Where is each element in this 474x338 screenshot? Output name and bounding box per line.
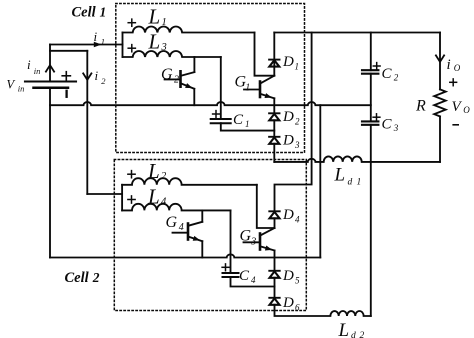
label D5 (282, 268, 300, 286)
label C4 (239, 268, 256, 285)
transistor G2 (165, 71, 195, 89)
svg-text:L: L (147, 184, 160, 208)
svg-text:2: 2 (161, 171, 167, 182)
plus C4 (222, 264, 229, 271)
wire L1 branch down to D1/G1 node (255, 33, 275, 76)
transistor G1 (244, 76, 274, 99)
wire D3 down elbow to Ld1 (273, 144, 275, 162)
svg-text:O: O (454, 63, 461, 73)
capacitor C2 vertical (370, 33, 372, 71)
label iO (447, 57, 461, 73)
wire R bottom (439, 116, 441, 161)
svg-text:1: 1 (357, 178, 362, 188)
label G4 (166, 214, 184, 233)
transistor G4 collector riser (201, 210, 203, 221)
label D4 (282, 207, 300, 225)
svg-text:in: in (34, 66, 41, 76)
svg-text:5: 5 (295, 276, 300, 286)
wire C2 to C3 (370, 74, 372, 122)
wire R branch vertical top (439, 33, 441, 90)
wire G4 emitter to bus2 (201, 241, 203, 257)
label G2 (161, 66, 179, 86)
wire G3 emitter through bus2 to D5 (274, 251, 276, 271)
wire D4 to G3 node (274, 218, 276, 228)
svg-text:2: 2 (394, 73, 399, 83)
label i1 (94, 29, 106, 47)
label D2 (282, 109, 300, 127)
diode D2 (269, 113, 279, 120)
svg-text:3: 3 (250, 236, 256, 247)
svg-text:2: 2 (295, 117, 300, 127)
plus L1 (128, 19, 135, 26)
label D3 (282, 133, 300, 151)
label C3 (382, 117, 399, 134)
capacitor C4 (223, 273, 239, 277)
transistor G4 (173, 222, 203, 241)
plus L3 (128, 45, 135, 52)
node L1L3 input vertical (122, 33, 124, 58)
svg-text:d: d (348, 178, 353, 188)
svg-text:G: G (166, 214, 178, 231)
svg-text:2: 2 (174, 75, 179, 86)
svg-text:i: i (27, 57, 31, 72)
diode D4 (269, 211, 279, 218)
svg-text:D: D (282, 54, 294, 70)
label L3 (148, 30, 167, 54)
wire output vertical to D4 elbow (275, 33, 312, 212)
plus C3 (373, 114, 380, 121)
svg-text:D: D (282, 268, 294, 284)
wire Vin+ up (49, 45, 51, 82)
inductor L4 (122, 204, 230, 211)
wire bus2 (50, 254, 320, 257)
wire L2L4 input from i2 (87, 193, 122, 195)
label G1 (235, 74, 251, 94)
svg-text:2: 2 (101, 76, 106, 86)
svg-text:1: 1 (101, 36, 105, 46)
wire main bus (with hops at i2, C1, output vertical) (50, 102, 371, 105)
svg-text:4: 4 (295, 215, 300, 225)
wire C4 bottom to D5-D6 midpoint (231, 277, 275, 287)
svg-text:C: C (382, 66, 393, 82)
svg-text:4: 4 (251, 275, 256, 285)
wire i2 vertical (86, 51, 88, 194)
battery minus sign (65, 91, 67, 97)
wire G1 emitter through bus to D2 (273, 98, 275, 113)
svg-text:3: 3 (161, 42, 167, 53)
wire i2 branch stub (50, 50, 87, 52)
plus L2 (128, 171, 135, 178)
svg-text:D: D (282, 295, 294, 311)
capacitor C4 vertical from L4 node (230, 210, 232, 273)
svg-text:D: D (282, 109, 294, 125)
svg-text:L: L (338, 320, 350, 338)
svg-text:i: i (95, 68, 99, 83)
arrow iO (436, 55, 444, 61)
svg-text:in: in (18, 84, 25, 94)
wire bottom rail with hop and inductor Ld1 (274, 156, 440, 162)
arrowhead i1 (94, 42, 102, 47)
svg-text:1: 1 (162, 17, 167, 28)
wire top rail (274, 32, 440, 34)
label VO (452, 99, 471, 115)
label i2 (95, 68, 107, 86)
svg-text:C: C (382, 117, 393, 133)
battery plus sign (62, 72, 70, 80)
label C1 (233, 112, 250, 129)
inductor L2 (122, 178, 257, 185)
label Ld2 (338, 320, 365, 338)
label D1 (282, 54, 299, 72)
node L2L4 input vertical (121, 185, 123, 211)
label Vin (7, 78, 25, 94)
Cell 1 dashed box (116, 4, 305, 153)
plus VO (450, 79, 457, 86)
resistor R (434, 89, 446, 116)
wire G2 emitter to bus (193, 89, 195, 105)
svg-text:d: d (351, 331, 356, 338)
wire Vin- down left rail (49, 88, 51, 258)
label G3 (240, 228, 257, 248)
svg-text:Cell: Cell (72, 5, 96, 21)
wire D6 elbow and inductor Ld2 (275, 305, 371, 316)
svg-text:G: G (161, 66, 173, 83)
arrow i2 (83, 73, 91, 79)
svg-text:2: 2 (360, 331, 365, 338)
svg-text:R: R (415, 98, 426, 115)
wire D1 vertical (273, 33, 275, 76)
label L1 (148, 4, 167, 28)
svg-text:1: 1 (245, 82, 250, 93)
diode D1 (269, 60, 279, 67)
plus C1 (213, 111, 220, 118)
label Ld1 (334, 165, 362, 188)
svg-text:2: 2 (92, 270, 100, 285)
label D6 (282, 295, 300, 313)
wire D5 to D6 (274, 278, 276, 298)
wire L2 branch down to D4/G3 node (257, 185, 275, 228)
wire C3 down to Ld2 (370, 125, 372, 316)
capacitor C3 (362, 121, 378, 124)
label L4 (147, 184, 167, 208)
Cell 2 dashed box (114, 160, 306, 311)
minus VO (453, 124, 458, 126)
source Vin battery (25, 82, 76, 88)
label Cell 1 (72, 5, 107, 21)
svg-text:1: 1 (100, 5, 107, 20)
label C2 (382, 66, 399, 83)
wire i1 top (50, 44, 123, 46)
svg-text:6: 6 (295, 303, 300, 313)
svg-text:L: L (148, 4, 161, 28)
plus C2 (373, 63, 380, 70)
svg-text:O: O (463, 105, 470, 115)
label i_in (27, 57, 40, 76)
diode D6 (269, 298, 279, 305)
label L2 (147, 159, 167, 183)
svg-text:4: 4 (161, 197, 167, 208)
transistor G3 (244, 228, 275, 251)
wire C1 bottom to D2-D3 midpoint (221, 123, 274, 130)
capacitor C1 vertical from L3 node (220, 57, 222, 119)
svg-text:1: 1 (245, 119, 250, 129)
plus L4 (128, 196, 135, 203)
svg-text:1: 1 (295, 62, 300, 72)
svg-text:D: D (282, 207, 294, 223)
svg-text:Cell: Cell (65, 270, 89, 286)
wire D2 to D3 (273, 120, 275, 137)
svg-text:G: G (240, 228, 252, 245)
svg-text:i: i (94, 29, 98, 44)
capacitor C1 (211, 119, 231, 123)
svg-text:D: D (282, 133, 294, 149)
svg-text:L: L (147, 159, 160, 183)
svg-text:3: 3 (393, 123, 399, 133)
svg-text:3: 3 (294, 140, 300, 150)
arrow i_in (46, 65, 54, 71)
wire bus2 riser (319, 105, 321, 257)
inductor L3 (123, 51, 221, 57)
inductor L1 (123, 26, 255, 32)
svg-text:4: 4 (179, 222, 184, 233)
svg-text:C: C (239, 268, 250, 284)
transistor G2 collector riser (193, 57, 195, 72)
capacitor C2 (362, 70, 378, 74)
diode D3 (269, 137, 279, 144)
svg-text:i: i (447, 57, 451, 73)
diode D5 (269, 271, 279, 278)
svg-text:C: C (233, 112, 244, 128)
svg-text:L: L (148, 30, 161, 54)
svg-text:L: L (334, 165, 346, 186)
label Cell 2 (65, 270, 100, 286)
label R (415, 98, 426, 115)
